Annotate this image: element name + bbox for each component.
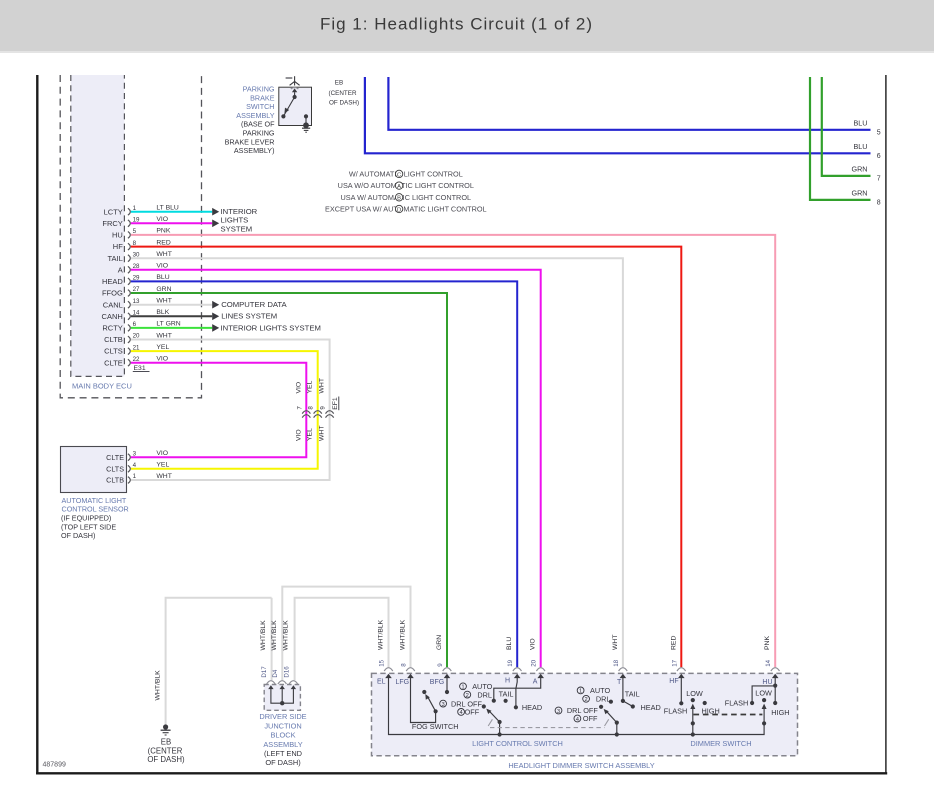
wire BLK pin14 computer data [131,315,212,317]
svg-text:(TOP LEFT SIDE: (TOP LEFT SIDE [61,522,116,531]
svg-text:YEL: YEL [307,428,314,441]
svg-text:GRN: GRN [852,189,868,198]
svg-text:HEAD: HEAD [102,277,123,286]
wire WHT/BLK D4 to LFG [282,587,410,681]
svg-text:ASSEMBLY: ASSEMBLY [263,740,302,749]
svg-text:9: 9 [320,406,327,410]
driver side junction block box [264,685,300,711]
svg-text:LIGHTS: LIGHTS [221,216,249,225]
svg-text:20: 20 [531,659,538,666]
TAIL contact [504,699,508,703]
svg-text:VIO: VIO [156,450,168,457]
DRL OFF contact [482,704,486,708]
wire BLU to pin5 [388,77,870,130]
switch blade group1 [498,720,502,724]
assembly pin 9 BFG [443,668,452,671]
svg-text:DRL: DRL [477,690,492,699]
svg-text:HF: HF [113,242,123,251]
svg-text:15: 15 [379,659,386,666]
switch blade group2 [615,721,619,725]
svg-text:HF: HF [669,678,678,685]
svg-text:VIO: VIO [295,382,302,394]
svg-text:WHT/BLK: WHT/BLK [282,620,289,651]
svg-text:ASSEMBLY: ASSEMBLY [236,111,274,120]
assembly pin 14 HU [771,668,780,671]
svg-text:EXCEPT USA W/ AUTOMATIC LIGHT: EXCEPT USA W/ AUTOMATIC LIGHT CONTROL [325,205,487,214]
assembly pin 19 H [513,668,522,671]
svg-text:CANL: CANL [103,300,123,309]
svg-text:LCTY: LCTY [104,207,123,216]
svg-text:HU: HU [762,679,772,686]
svg-text:7: 7 [877,176,881,183]
assembly pin 20 A [536,668,545,671]
EL internal wire + bus [389,678,765,735]
svg-text:D17: D17 [261,666,268,678]
svg-text:TAIL: TAIL [108,254,123,263]
connector EF1 [302,411,310,414]
svg-text:OF DASH): OF DASH) [61,531,95,540]
fog switch blade [428,697,436,712]
fog switch wiring LFG [411,678,436,723]
svg-text:WHT: WHT [156,251,171,258]
svg-text:WHT/BLK: WHT/BLK [377,619,384,650]
BFG contact [446,678,448,692]
svg-text:VIO: VIO [156,216,168,223]
wire WHT/BLK D17 drop [271,598,273,680]
parking brake switch contacts [294,92,296,97]
assembly pin 17 HF [677,668,686,671]
junction block pin D4 [278,681,287,684]
svg-text:LIGHT CONTROL SWITCH: LIGHT CONTROL SWITCH [472,739,563,748]
svg-text:PNK: PNK [764,636,771,650]
svg-text:COMPUTER DATA: COMPUTER DATA [221,300,287,309]
parking brake switch right contact to ground [304,114,308,118]
svg-text:D4: D4 [272,669,279,677]
svg-text:CLTE: CLTE [104,358,123,367]
svg-text:(IF EQUIPPED): (IF EQUIPPED) [61,513,111,522]
svg-text:EL: EL [377,679,386,686]
svg-text:FRCY: FRCY [102,219,122,228]
svg-text:B: B [397,196,401,202]
svg-text:CLTS: CLTS [104,347,123,356]
svg-text:GRN: GRN [156,286,171,293]
parking brake switch blade [284,97,295,116]
svg-text:EB: EB [335,79,343,86]
wire WHT/BLK EB ground run [166,598,272,726]
svg-text:OFF: OFF [583,714,598,723]
svg-text:HEADLIGHT DIMMER SWITCH ASSEMB: HEADLIGHT DIMMER SWITCH ASSEMBLY [508,761,654,770]
svg-text:HIGH: HIGH [771,708,789,717]
svg-text:VIO: VIO [530,638,537,650]
svg-text:OF DASH): OF DASH) [329,99,359,106]
svg-text:GRN: GRN [436,635,443,650]
LOW contact 1 [691,698,695,702]
DRL OFF contact group2 [599,705,603,709]
assembly pin 8 LFG [406,668,415,671]
group1 labels [460,683,467,690]
svg-text:LINES SYSTEM: LINES SYSTEM [221,312,277,321]
svg-text:RCTY: RCTY [102,324,122,333]
TAIL-HEAD link blade [623,701,633,707]
svg-text:GRN: GRN [852,165,868,174]
svg-text:W/ AUTOMATIC LIGHT CONTROL: W/ AUTOMATIC LIGHT CONTROL [349,170,463,179]
svg-text:YEL: YEL [307,380,314,393]
svg-text:CLTE: CLTE [106,453,124,462]
svg-text:PARKING: PARKING [243,129,275,138]
svg-text:BLU: BLU [854,142,868,151]
svg-text:OF DASH): OF DASH) [147,755,185,764]
svg-text:LT GRN: LT GRN [156,321,180,328]
svg-text:MAIN BODY ECU: MAIN BODY ECU [72,382,132,391]
parking brake switch assembly box [279,87,312,125]
svg-text:LOW: LOW [686,689,703,698]
svg-text:WHT/BLK: WHT/BLK [155,670,162,701]
junction block internal bus [271,689,294,703]
ground symbol below parking brake box [302,127,310,129]
svg-text:BLU: BLU [156,274,169,281]
svg-text:TAIL: TAIL [499,689,514,698]
svg-text:3: 3 [557,709,560,715]
svg-text:WHT/BLK: WHT/BLK [271,620,278,651]
dimmer mechanical link [694,714,763,716]
svg-text:CONTROL SENSOR: CONTROL SENSOR [62,505,129,514]
wire GRN to pin8 [810,77,871,200]
wire A to contact [494,678,541,700]
wire LT BLU pin1 to interior lights [131,211,212,213]
ground EB bottom [163,724,168,729]
svg-text:2: 2 [584,697,587,703]
svg-text:8: 8 [308,406,315,410]
svg-text:BFG: BFG [430,679,444,686]
LOW contact 2 [762,698,766,702]
svg-text:WHT: WHT [156,298,171,305]
svg-text:BRAKE LEVER: BRAKE LEVER [225,137,275,146]
svg-text:EB: EB [161,737,171,746]
svg-text:VIO: VIO [156,356,168,363]
svg-text:T: T [617,679,622,686]
wire GRN pin27 to BFG [131,293,447,667]
wire WHT/BLK D16 to EL [295,598,389,680]
svg-text:D16: D16 [283,666,290,678]
svg-text:PNK: PNK [156,228,170,235]
svg-text:1: 1 [461,685,464,691]
svg-text:YEL: YEL [156,344,169,351]
svg-text:H: H [505,677,510,684]
svg-text:WHT: WHT [156,332,171,339]
svg-text:WHT/BLK: WHT/BLK [260,620,267,651]
svg-text:FLASH: FLASH [664,707,688,716]
junction block pin D17 [267,681,276,684]
svg-text:1: 1 [133,473,137,480]
svg-text:DIMMER SWITCH: DIMMER SWITCH [690,739,751,748]
svg-text:OF DASH): OF DASH) [265,758,300,767]
svg-text:14: 14 [765,659,772,666]
wire PNK pin5 to HU [131,235,775,667]
svg-text:DRL: DRL [596,695,611,704]
svg-text:(CENTER: (CENTER [329,90,357,97]
wire WHT pin30 to T [131,258,623,667]
diagram border frame [36,75,38,774]
svg-text:HEAD: HEAD [522,703,542,712]
svg-text:LT BLU: LT BLU [156,205,179,212]
svg-text:A: A [397,184,401,190]
svg-text:HU: HU [112,231,123,240]
svg-text:YEL: YEL [156,462,169,469]
wire VIO pin28 to A [131,270,541,668]
wire T to TAIL contact [622,678,624,701]
svg-text:LFG: LFG [396,679,410,686]
svg-text:4: 4 [133,462,137,469]
svg-text:A: A [533,679,538,686]
svg-text:RED: RED [670,636,677,650]
parking brake switch pin arrow [291,87,299,89]
wire YEL pin21 CLTS to sensor pin4 [131,351,318,469]
svg-text:DRIVER SIDE: DRIVER SIDE [259,712,306,721]
title bar [0,0,934,51]
svg-text:7: 7 [296,406,303,410]
svg-text:18: 18 [613,659,620,666]
svg-text:(BASE OF: (BASE OF [241,120,275,129]
svg-text:INTERIOR LIGHTS SYSTEM: INTERIOR LIGHTS SYSTEM [221,323,321,332]
svg-text:SYSTEM: SYSTEM [221,225,253,234]
svg-text:1: 1 [579,689,582,695]
svg-text:D: D [397,207,401,213]
svg-text:CANH: CANH [102,312,123,321]
svg-text:8: 8 [401,663,408,667]
svg-text:ASSEMBLY): ASSEMBLY) [234,146,275,155]
svg-text:EF1: EF1 [332,397,339,410]
svg-text:VIO: VIO [295,429,302,441]
wire GRN to pin7 [822,77,871,176]
svg-text:487899: 487899 [43,762,66,769]
svg-text:RED: RED [156,239,170,246]
svg-text:JUNCTION: JUNCTION [264,721,301,730]
svg-text:FOG SWITCH: FOG SWITCH [412,722,459,731]
wire WHT pin20 CLTB to sensor pin1 [131,340,330,481]
svg-text:(LEFT END: (LEFT END [264,749,302,758]
junction block pin D16 [289,681,298,684]
svg-text:CLTB: CLTB [106,476,124,485]
assembly pin 15 EL [384,668,393,671]
svg-text:BLU: BLU [506,637,513,650]
headlight dimmer switch assembly box [372,673,798,755]
svg-text:WHT/BLK: WHT/BLK [399,619,406,650]
svg-text:3: 3 [441,702,444,708]
svg-text:3: 3 [133,450,137,457]
assembly pin 18 T [619,668,628,671]
svg-text:A: A [118,265,123,274]
dimmer blade 1 [691,721,695,725]
wire HF to FLASH contact [680,678,682,703]
svg-text:5: 5 [877,130,881,137]
group2 labels [577,687,584,694]
wire WHT pin13 computer data [131,304,212,306]
svg-text:PARKING: PARKING [243,85,275,94]
svg-text:E31: E31 [134,365,146,372]
svg-text:WHT: WHT [319,378,326,393]
svg-text:BRAKE: BRAKE [250,93,275,102]
svg-text:BLK: BLK [156,309,169,316]
svg-text:HEAD: HEAD [641,703,661,712]
ground EB top (crows foot) [286,77,293,79]
svg-text:WHT: WHT [319,426,326,441]
svg-text:CLTB: CLTB [104,335,123,344]
svg-text:6: 6 [877,153,881,160]
automatic light control sensor box [61,447,127,493]
svg-text:VIO: VIO [156,263,168,270]
svg-text:FFOG: FFOG [102,289,123,298]
svg-text:FLASH: FLASH [725,698,749,707]
svg-text:Fig 1: Headlights Circuit (1 o: Fig 1: Headlights Circuit (1 of 2) [320,15,593,34]
wire BLU pin29 to H [131,281,517,667]
svg-text:2: 2 [466,693,469,699]
wire H to HEAD contact [516,678,517,707]
DRL contact group2 [609,700,613,704]
main body ECU outer dashed box [60,75,201,398]
svg-text:TAIL: TAIL [625,690,640,699]
HIGH contact 1 [703,701,707,705]
svg-text:CLTS: CLTS [106,464,124,473]
svg-text:BLU: BLU [854,119,868,128]
dimmer blade 2 [762,721,766,725]
svg-text:9: 9 [437,663,444,667]
wire RED pin8 to HF [131,247,681,668]
svg-text:INTERIOR: INTERIOR [221,207,258,216]
svg-text:19: 19 [507,659,514,666]
main body ECU shaded box [71,75,125,376]
wire LT GRN pin6 interior lights [131,327,212,329]
wire VIO pin22 CLTE to sensor pin3 [131,363,306,458]
wire VIO pin19 to interior lights [131,222,212,224]
svg-text:BLOCK: BLOCK [270,731,295,740]
svg-text:WHT: WHT [612,635,619,650]
svg-text:SWITCH: SWITCH [246,102,274,111]
svg-text:C: C [397,172,401,178]
mechanical link group1-group2 [488,719,492,726]
svg-text:LOW: LOW [755,688,772,697]
svg-text:USA W/O AUTOMATIC LIGHT CONTRO: USA W/O AUTOMATIC LIGHT CONTROL [338,181,474,190]
wire BLU to pin6 [365,77,871,153]
svg-text:OFF: OFF [465,708,480,717]
dimmer switch section 2 HU [774,678,776,703]
svg-text:WHT: WHT [156,473,171,480]
svg-text:8: 8 [877,200,881,207]
svg-text:17: 17 [671,659,678,666]
svg-text:USA W/ AUTOMATIC LIGHT CONTROL: USA W/ AUTOMATIC LIGHT CONTROL [341,193,472,202]
